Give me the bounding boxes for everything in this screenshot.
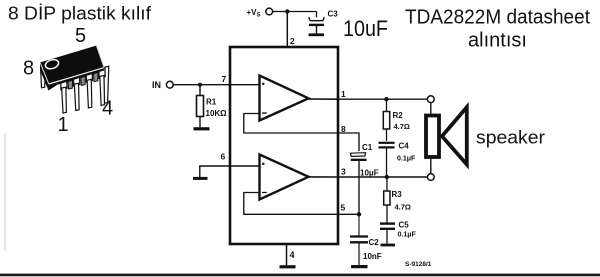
pin 1 label [341,89,346,99]
svg-text:4: 4 [290,250,295,260]
svg-text:10nF: 10nF [363,252,382,261]
svg-text:3: 3 [341,167,346,177]
DIP pin label 1 [58,114,69,136]
DIP pin label 4 [102,98,113,120]
body left end face [40,63,49,91]
wire: pin 6 input grounded [200,166,260,177]
wire: pin 5 to C2 node [338,213,359,215]
pin 4 label [290,250,295,260]
wire: op-amp U1a feedback to pin 8 [244,114,338,134]
svg-text:2: 2 [290,36,295,46]
svg-text:IN: IN [152,80,161,90]
figure number S-9128/1 [405,261,432,268]
svg-text:10μF: 10μF [360,169,379,178]
capacitor C5 0.1uF [380,221,417,244]
wire: speaker to bottom terminal [430,158,432,174]
wire: pin 3 to output terminal (bottom) [338,176,427,178]
title: TDA2822M datasheet alintisi [405,7,590,52]
output terminal (top) [427,96,434,103]
IC body TDA2822M [230,47,338,244]
faint scan line left [4,133,6,251]
ground (C5) [381,244,396,247]
ground (pin 4) [280,265,296,268]
svg-text:R3: R3 [392,190,403,199]
svg-text:C3: C3 [328,10,339,19]
svg-text:1: 1 [341,89,346,99]
wire: pin 4 to ground [286,244,288,265]
input terminal IN [152,80,173,90]
svg-text:5: 5 [75,25,86,47]
DIP pin label 5 [75,25,86,47]
front pins 1-4 : shoulders [61,79,67,90]
back pin right (near pin 4/5) [104,66,109,103]
node: pin1/R2 junction [384,97,388,101]
svg-text:7: 7 [222,74,227,84]
svg-text:C2: C2 [369,238,380,247]
svg-text:C1: C1 [362,143,373,152]
resistor R1 10K [197,85,228,128]
op-amp U1b [260,155,309,200]
op-amp U1a [260,76,309,121]
DIP package (3D view) [40,46,109,114]
ground (R1) [194,127,210,130]
ground (C3) [309,33,325,36]
node: +Vs junction [285,9,289,13]
svg-text:0.1μF: 0.1μF [397,155,416,162]
svg-text:1: 1 [58,114,69,136]
pin 7 label [222,74,227,84]
front edge highlight [49,68,104,84]
node: pin3/R3 junction [385,175,389,179]
node: junction IN/R1 [198,83,202,87]
svg-text:speaker: speaker [476,128,545,148]
speaker text label [476,128,545,148]
notch circle on top face [44,58,60,70]
svg-text:10KΩ: 10KΩ [206,109,228,118]
svg-text:R1: R1 [206,98,217,107]
svg-text:+VS: +VS [247,8,261,19]
svg-text:4.7Ω: 4.7Ω [395,203,411,212]
DIP pin label 8 [23,58,34,80]
pin 8 label [341,124,346,134]
wire: pin 1 to output terminal [338,98,427,100]
speaker LS1 [426,107,467,164]
pin 5 label [341,203,346,213]
wire: +Vs to pin 2 [273,12,288,48]
resistor R2 4.7ohm [383,99,410,141]
ground (pin 6) [193,177,208,180]
wire: op-amp U1b output to pin 3 [307,176,338,178]
svg-text:6: 6 [221,152,226,162]
svg-text:4: 4 [102,98,113,120]
wire: C1 down across pin3 line to pin5 node [358,160,360,215]
svg-text:R2: R2 [393,111,404,120]
pin 6 label [221,152,226,162]
resistor R3 4.7ohm [384,177,411,223]
svg-text:8 DİP plastik kılıf: 8 DİP plastik kılıf [8,4,152,24]
wire: supply to C3 [287,12,316,18]
body front face [49,68,105,91]
pin 3 label [341,167,346,177]
svg-text:8: 8 [23,58,34,80]
wire: pin 8 to C1 [338,133,359,151]
wire: top terminal to speaker [430,103,432,114]
svg-text:5: 5 [341,203,346,213]
svg-text:S-9128/1: S-9128/1 [405,261,432,268]
supply terminal +Vs [247,8,273,19]
svg-text:0.1μF: 0.1μF [398,232,417,239]
svg-text:C5: C5 [399,221,410,230]
back pin slivers in gaps [68,80,73,89]
pin 2 label [290,36,295,46]
front pins 1-4 : legs [62,87,67,113]
output terminal (bottom) [427,174,434,181]
ground (C2) [351,265,368,268]
capacitor C3 (electrolytic) [309,10,339,34]
svg-text:alıntısı: alıntısı [468,30,527,52]
wire: IN to op-amp U1a + input (pin 7) [173,84,259,86]
svg-text:C4: C4 [399,142,410,151]
capacitor C4 0.1uF [379,142,417,178]
capacitor C2 10nF [350,214,382,265]
svg-text:4.7Ω: 4.7Ω [394,122,410,131]
annotation 10uF [343,16,388,41]
capacitor C1 10uF (electrolytic) [350,143,378,178]
caption: 8 DIP plastik kilif [8,4,152,24]
bottom border line [0,274,600,277]
wire: op-amp U1b feedback to pin 5 [244,193,338,215]
svg-text:TDA2822M datasheet: TDA2822M datasheet [405,7,590,29]
body top face [40,46,104,85]
node: pin5/C1/C2 junction [357,212,361,216]
back pin near pin 8 [41,67,46,88]
wire: op-amp U1a output to pin 1 [307,98,338,100]
svg-text:10uF: 10uF [343,16,388,41]
